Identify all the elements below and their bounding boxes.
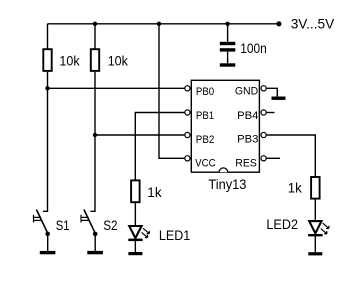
svg-text:PB2: PB2: [196, 134, 215, 146]
svg-text:VCC: VCC: [195, 158, 216, 170]
svg-text:100n: 100n: [240, 40, 266, 56]
svg-text:Tiny13: Tiny13: [208, 176, 246, 192]
svg-text:RES: RES: [235, 157, 256, 169]
svg-text:PB0: PB0: [196, 86, 214, 98]
svg-text:PB3: PB3: [237, 134, 258, 146]
svg-text:LED1: LED1: [159, 227, 191, 243]
svg-text:S2: S2: [103, 217, 117, 233]
svg-text:GND: GND: [235, 85, 258, 97]
svg-text:S1: S1: [56, 217, 70, 233]
svg-text:1k: 1k: [147, 184, 162, 200]
svg-text:PB1: PB1: [196, 110, 214, 122]
svg-text:3V...5V: 3V...5V: [291, 16, 335, 32]
svg-text:PB4: PB4: [237, 110, 258, 122]
svg-text:1k: 1k: [288, 180, 303, 196]
svg-text:LED2: LED2: [266, 216, 298, 232]
svg-text:10k: 10k: [59, 53, 80, 69]
svg-text:10k: 10k: [108, 53, 129, 69]
